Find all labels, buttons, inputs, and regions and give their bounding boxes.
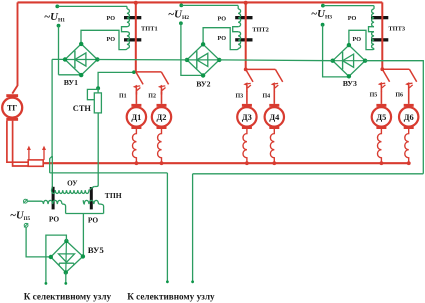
resistor shunt near TG <box>28 160 43 166</box>
svg-text:Д1: Д1 <box>131 113 141 122</box>
winding RO left of TPN <box>27 200 62 204</box>
svg-text:ТПТ3: ТПТ3 <box>388 26 405 33</box>
wire ~U_P5 lower to VU5 left node <box>26 227 51 257</box>
svg-text:К селективному узлу: К селективному узлу <box>24 291 112 301</box>
winding OU control <box>52 187 95 194</box>
wire bottom red motor bus <box>43 162 410 164</box>
wire selective right horizontal <box>193 173 424 175</box>
switch contact П6 <box>405 82 413 92</box>
wire VU3 right node to right edge and down <box>365 61 423 174</box>
transformer TPT3 core bar lower <box>371 38 388 41</box>
transformer TPN core bar right <box>90 187 93 209</box>
wire selective left drop <box>166 173 168 281</box>
inductor field winding of D4 <box>270 129 274 163</box>
inductor field winding of D6 <box>405 129 409 163</box>
node D6 to bottom bus <box>407 161 411 165</box>
wire top red supply bus <box>18 1 383 3</box>
wire VU5 bottom node to selective node <box>65 273 67 283</box>
svg-text:ВУ1: ВУ1 <box>64 78 78 87</box>
wire VU5 top node bracket to selective node <box>46 235 67 283</box>
node switch feed P3/P4 <box>244 68 248 72</box>
wire left border down to tachogenerator <box>12 2 17 93</box>
svg-text:Д2: Д2 <box>157 113 167 122</box>
wire link to VU5 right node <box>82 214 84 256</box>
winding RO right of TPN <box>83 200 98 204</box>
winding RO lower of TPT1 <box>127 32 129 49</box>
svg-text:Д4: Д4 <box>269 113 280 122</box>
switch blade П4 <box>275 69 282 82</box>
node D3 to bottom bus <box>245 161 249 165</box>
svg-text:~UН3: ~UН3 <box>311 8 332 21</box>
svg-text:ТПН: ТПН <box>105 191 122 200</box>
wire red power drop through TPT1 <box>135 2 137 72</box>
wire ~U_H3 lower feed to bridge VU3 <box>323 25 350 77</box>
bridge rectifier VU2 <box>185 42 222 78</box>
svg-text:П6: П6 <box>395 93 403 99</box>
wire switch bar P5/P6 <box>382 68 409 70</box>
motor Д1 <box>127 104 146 129</box>
svg-text:ТПТ1: ТПТ1 <box>141 26 158 33</box>
motor Д6 <box>399 104 418 129</box>
node ~U_H1 lower terminal <box>57 24 61 28</box>
wire contact to motor D2 <box>161 92 163 104</box>
wire switch bar P3/P4 <box>246 68 276 70</box>
wire jog between RO windings TPT3 <box>369 27 375 32</box>
svg-text:РО: РО <box>107 36 116 43</box>
wire switch bar P1/P2 <box>136 71 162 73</box>
wire ~U_H2 feed to TPT winding <box>181 4 238 6</box>
svg-text:РО: РО <box>348 15 357 22</box>
motor Д5 <box>372 104 391 129</box>
winding RO upper of TPT1 <box>127 9 129 27</box>
switch contact П3 <box>243 82 251 92</box>
transformer TPT3 core bar upper <box>371 16 388 19</box>
wire ~U_H2 lower feed to bridge VU2 <box>181 23 203 75</box>
motor Д3 <box>237 104 256 129</box>
svg-text:ВУ3: ВУ3 <box>343 79 357 88</box>
wire ~U_H1 feed to TPT winding <box>57 5 127 7</box>
svg-text:~UН1: ~UН1 <box>44 11 65 24</box>
svg-text:ВУ2: ВУ2 <box>196 80 210 89</box>
motor Д4 <box>265 104 284 129</box>
svg-text:Д5: Д5 <box>376 113 386 122</box>
switch blade П2 <box>161 72 168 85</box>
winding RO lower of TPT2 <box>238 32 240 49</box>
svg-text:ТГ: ТГ <box>7 104 17 113</box>
svg-text:~UН2: ~UН2 <box>168 8 189 21</box>
svg-text:СТН: СТН <box>73 104 92 113</box>
wire RO right winding drop <box>99 204 104 214</box>
inductor field winding of D5 <box>378 129 382 163</box>
node ~U_H3 lower terminal <box>321 23 325 27</box>
svg-text:ОУ: ОУ <box>67 180 78 188</box>
svg-text:ВУ5: ВУ5 <box>88 245 105 255</box>
wire ~U_H3 feed to TPT winding <box>323 5 374 7</box>
tap arrow right on shunt <box>42 146 46 160</box>
node D2 to bottom bus <box>160 161 164 165</box>
wire contact to motor D6 <box>408 92 410 104</box>
svg-text:Д3: Д3 <box>242 113 252 122</box>
node switch feed P5/P6 <box>380 67 384 71</box>
switch blade П5 <box>382 69 389 82</box>
wire return RO TPT3 to bridge VU3 top <box>349 30 374 49</box>
node VU5 bracket end <box>45 282 48 285</box>
bridge rectifier VU1 <box>63 42 100 78</box>
wire selective right drop <box>192 174 194 281</box>
svg-text:П4: П4 <box>263 94 271 100</box>
node VU5 bottom end <box>64 282 67 285</box>
node selective right drop end <box>191 280 194 283</box>
node ~U_H2 lower terminal <box>179 21 183 25</box>
svg-text:РО: РО <box>107 15 116 22</box>
connector ~U_P5 upper <box>23 199 27 203</box>
node ~U_H3 upper terminal <box>321 4 325 8</box>
wire ~U_H1 long drop to OU transformer <box>50 59 53 187</box>
inductor field winding of D3 <box>243 129 247 163</box>
node D4 to bottom bus <box>272 161 276 165</box>
switch contact П4 <box>271 82 279 92</box>
wire RO secondary bottom link <box>66 213 104 215</box>
node green on switch bar <box>132 70 136 74</box>
switch contact П1 <box>133 85 141 95</box>
node junction top bus / TPT1 drop <box>134 1 138 5</box>
node selective left drop end <box>166 280 169 283</box>
node ~U_H2 upper terminal <box>179 4 183 8</box>
switch blade П6 <box>409 69 416 82</box>
svg-text:РО: РО <box>218 35 227 42</box>
svg-text:К селективному узлу: К селективному узлу <box>127 291 215 301</box>
svg-text:РО: РО <box>218 15 227 22</box>
transformer TPT2 core bar upper <box>235 16 252 19</box>
transformer TPT2 core bar lower <box>235 38 252 41</box>
wire ~U_H1 lower feed to bridge VU1 <box>52 26 81 75</box>
wire green AC bus VU2 right to VU3 left <box>219 59 332 62</box>
winding RO upper of TPT2 <box>238 9 240 27</box>
node D5 to bottom bus <box>380 161 384 165</box>
svg-text:ТПТ2: ТПТ2 <box>252 26 269 33</box>
wire VU1 output to switch bar <box>98 72 134 88</box>
svg-text:П2: П2 <box>148 94 156 100</box>
resistor STN <box>87 88 101 113</box>
node ~U_H1 upper terminal <box>55 5 59 9</box>
wire return RO TPT1 to bridge VU1 top <box>81 30 127 49</box>
wire TG outer lead to bottom bus <box>7 121 28 163</box>
tachogenerator TG <box>2 94 22 121</box>
svg-text:П5: П5 <box>370 93 378 99</box>
connector ~U_P5 lower <box>24 223 28 227</box>
wire TG inner lead to bottom bus <box>13 121 29 166</box>
switch blade П3 <box>246 69 253 82</box>
wire contact to motor D3 <box>246 92 248 104</box>
svg-text:РО: РО <box>88 216 98 225</box>
wire TPT1 feed drop <box>126 6 128 8</box>
svg-text:РО: РО <box>353 36 362 43</box>
inductor field winding of D2 <box>158 129 162 163</box>
svg-text:Д6: Д6 <box>404 113 414 122</box>
svg-text:РО: РО <box>49 214 59 223</box>
switch blade П1 <box>136 72 143 85</box>
bridge rectifier VU5 <box>49 239 86 275</box>
wire selective left horizontal <box>50 172 168 174</box>
tap arrow left on shunt <box>27 146 31 160</box>
svg-text:~UП5: ~UП5 <box>10 210 31 222</box>
wire red power drop through TPT3 <box>381 2 383 69</box>
winding RO upper of TPT3 <box>372 9 374 27</box>
transformer TPT1 core bar lower <box>124 38 141 41</box>
wire contact to motor D1 <box>135 92 137 104</box>
wire TPT2 feed drop <box>237 6 239 9</box>
transformer TPN core bar left <box>52 187 55 210</box>
wire TPT3 feed drop <box>373 6 375 9</box>
wire return RO TPT2 to bridge VU2 top <box>203 28 238 50</box>
wire red power drop through TPT2 <box>245 2 247 69</box>
wire STN bottom down to OU winding <box>94 113 98 187</box>
transformer TPT1 core bar upper <box>124 16 141 19</box>
bridge rectifier VU3 <box>331 43 368 79</box>
svg-text:П3: П3 <box>236 94 244 100</box>
node D1 to bottom bus <box>135 161 139 165</box>
wire RO left winding drop <box>62 204 66 214</box>
wire green AC bus VU1 right to VU2 left <box>97 59 187 61</box>
wire contact to motor D5 <box>380 92 382 104</box>
switch contact П5 <box>378 82 386 92</box>
svg-text:П1: П1 <box>119 94 127 100</box>
wire jog between RO windings TPT1 <box>122 27 128 32</box>
winding RO lower of TPT3 <box>372 32 374 49</box>
node STN top <box>96 86 100 90</box>
switch contact П2 <box>158 85 166 95</box>
motor Д2 <box>152 104 171 129</box>
node junction top bus / TPT2 drop <box>244 1 248 5</box>
inductor field winding of D1 <box>133 129 137 163</box>
wire contact to motor D4 <box>273 92 275 104</box>
wire jog between RO windings TPT2 <box>233 27 239 32</box>
